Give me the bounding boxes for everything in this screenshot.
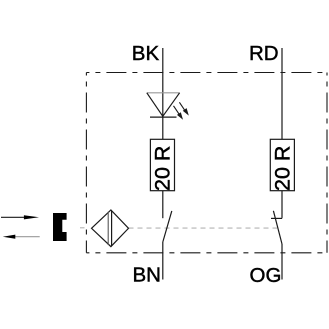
svg-text:BK: BK	[132, 42, 160, 65]
svg-text:RD: RD	[249, 42, 279, 65]
svg-text:20 R: 20 R	[150, 146, 174, 191]
svg-text:OG: OG	[250, 264, 282, 287]
svg-text:20 R: 20 R	[270, 146, 294, 191]
svg-text:BN: BN	[133, 264, 161, 287]
